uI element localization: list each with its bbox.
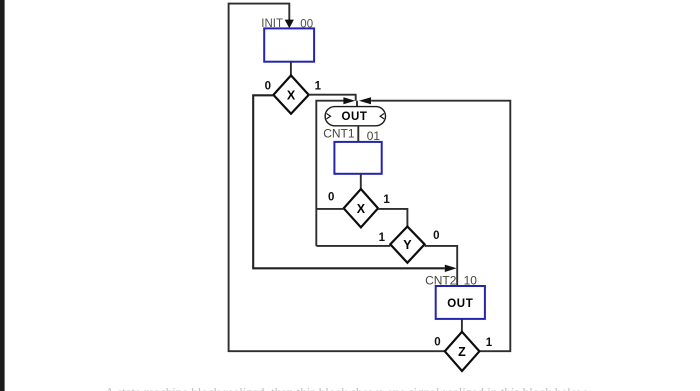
left black border bar: [0, 0, 5, 391]
decision diamond X1: [273, 75, 308, 113]
wire: junction stub into OUT oval: [356, 101, 358, 107]
svg-text:1: 1: [486, 337, 493, 349]
svg-text:OUT: OUT: [341, 111, 367, 123]
wire: CNT2 box to diamond Z: [461, 319, 463, 332]
wire: X2=0 branch to left return vertical: [316, 208, 343, 210]
svg-text:A state machine block realized: A state machine block realized, then thi…: [105, 385, 587, 391]
wire: Y=0 branch right and down into CNT2 box (label separator): [425, 246, 458, 286]
svg-text:01: 01: [367, 129, 381, 143]
decision diamond X2: [344, 189, 378, 227]
conditional output oval OUT: [325, 107, 385, 126]
svg-text:0: 0: [434, 336, 440, 348]
decision diamond Y: [390, 227, 424, 263]
wire: X2=1 branch right and down to diamond Y: [378, 209, 407, 227]
arrowhead pointing right into oval junction: [343, 97, 355, 104]
state box CNT2 with OUT: [436, 286, 485, 319]
svg-text:X: X: [287, 89, 296, 103]
arrowhead into INIT: [285, 20, 294, 29]
wire: INIT to diamond X1: [290, 62, 292, 76]
svg-text:INIT: INIT: [261, 18, 283, 30]
svg-text:00: 00: [300, 18, 313, 30]
wire: right feedback from Z=1 up and left into oval junction: [371, 101, 510, 352]
svg-text:CNT1: CNT1: [323, 127, 355, 141]
decision diamond Z: [445, 332, 480, 371]
svg-text:0: 0: [265, 80, 271, 92]
svg-text:Z: Z: [458, 345, 466, 359]
wire: reset loop from Z=0 back to INIT: [229, 4, 446, 352]
svg-text:Y: Y: [403, 238, 412, 252]
svg-text:OUT: OUT: [447, 298, 473, 310]
wire: oval to CNT1 box (label separator): [357, 126, 359, 142]
state box INIT (00): [264, 28, 314, 61]
svg-text:0: 0: [328, 192, 334, 204]
svg-text:1: 1: [379, 232, 386, 244]
svg-text:0: 0: [433, 230, 439, 242]
wire: CNT1 to diamond X2: [360, 174, 362, 189]
wire: left return vertical (from X2=0 / Y=1 up to oval junction): [316, 101, 343, 246]
wire: X1=0 branch left, down and long arrow to CNT2 entry: [253, 95, 445, 268]
state box CNT1 (01): [334, 142, 381, 174]
wire: X1=1 branch right and down to junction: [309, 95, 356, 101]
svg-text:1: 1: [383, 194, 390, 206]
svg-text:1: 1: [315, 81, 322, 93]
svg-text:X: X: [357, 202, 366, 216]
arrowhead pointing left into oval junction: [359, 97, 371, 104]
wire: Y=1 branch to left return vertical: [316, 245, 390, 247]
